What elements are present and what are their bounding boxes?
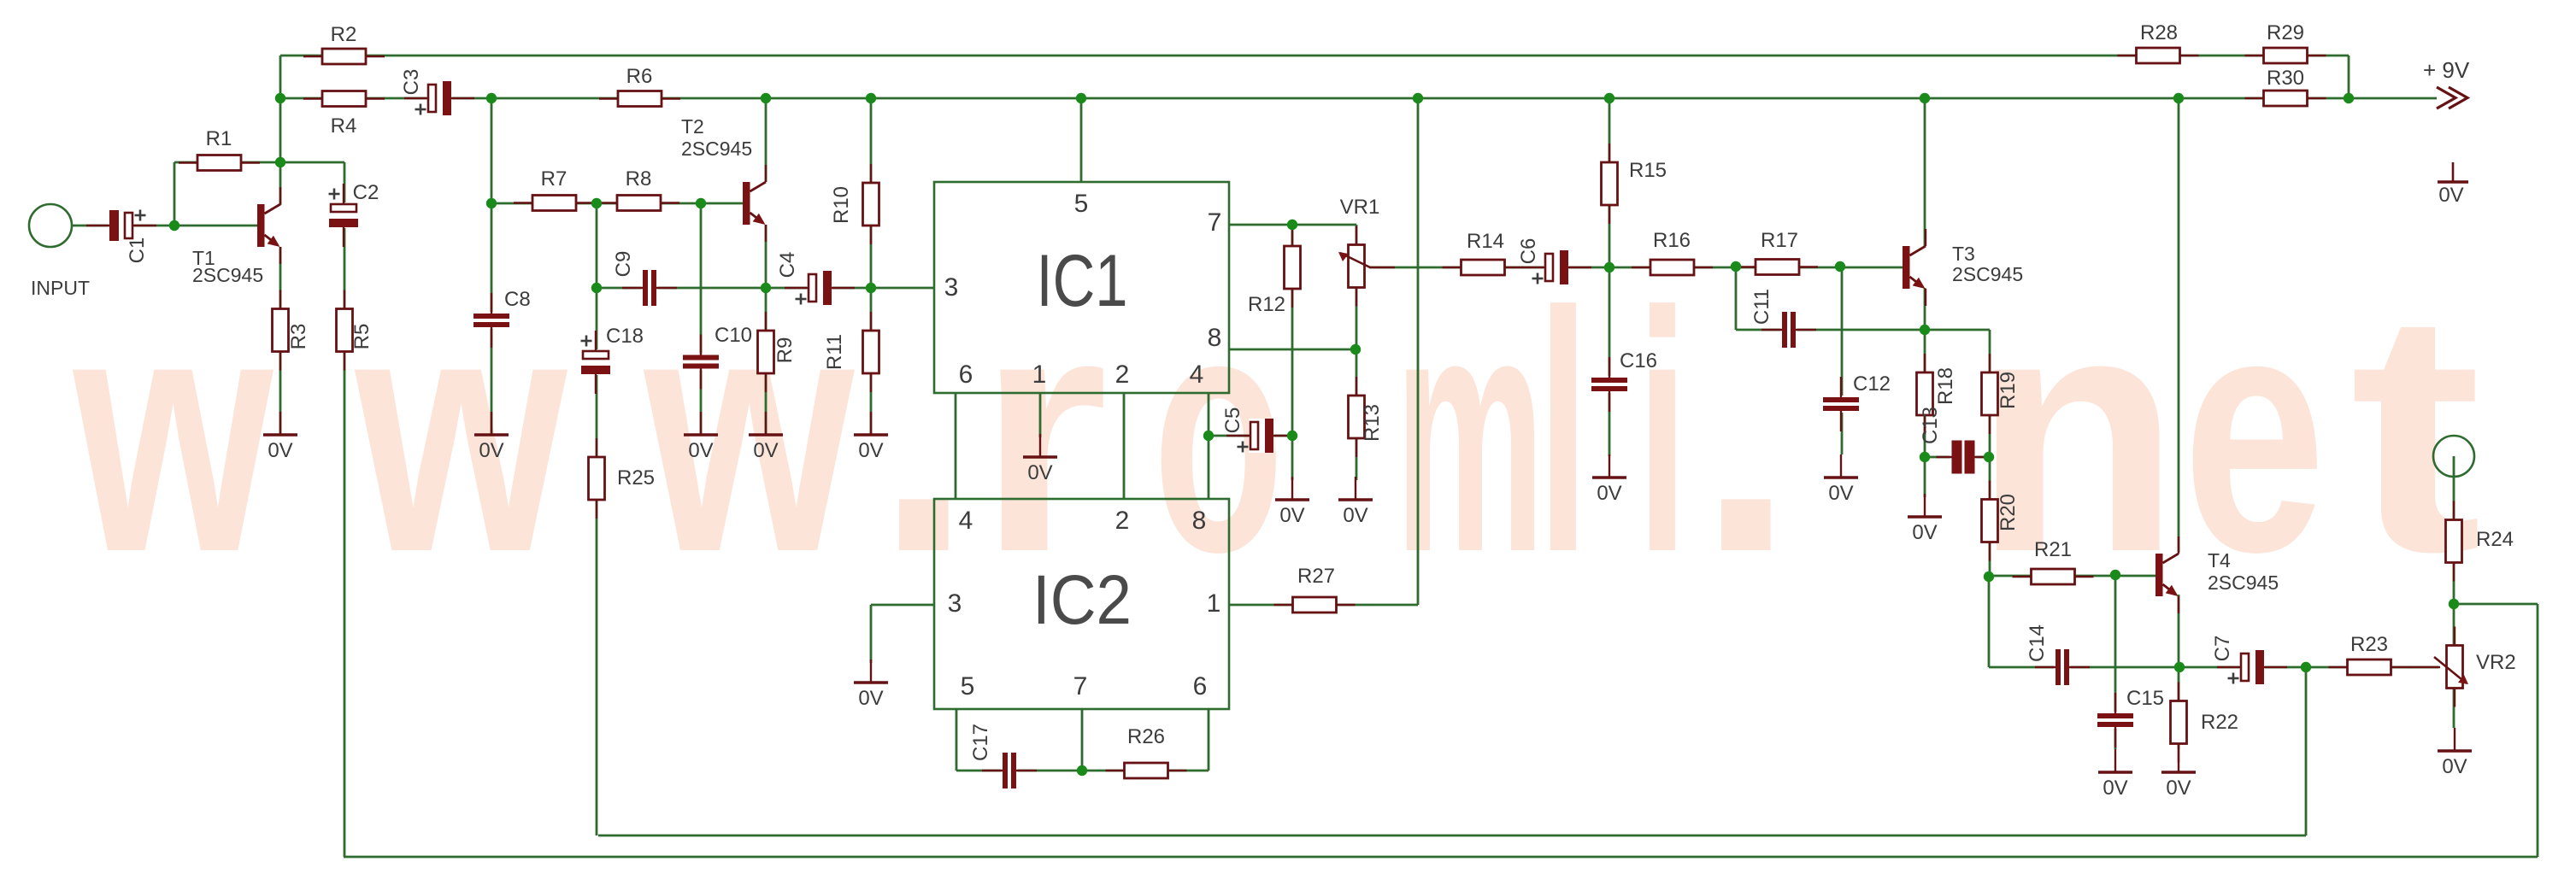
svg-text:0V: 0V xyxy=(1597,482,1621,505)
svg-text:C6: C6 xyxy=(1517,238,1540,265)
svg-text:7: 7 xyxy=(1073,672,1088,700)
svg-text:3: 3 xyxy=(948,589,962,618)
svg-text:R28: R28 xyxy=(2140,21,2178,44)
svg-text:3: 3 xyxy=(944,273,959,302)
svg-text:l: l xyxy=(1538,242,1590,624)
svg-text:R7: R7 xyxy=(541,167,568,191)
svg-text:T2: T2 xyxy=(681,115,704,138)
svg-text:R29: R29 xyxy=(2267,21,2304,44)
svg-text:C2: C2 xyxy=(353,181,379,204)
svg-text:R2: R2 xyxy=(331,23,357,46)
svg-text:R6: R6 xyxy=(626,65,653,88)
svg-text:R9: R9 xyxy=(773,337,797,364)
svg-text:C1: C1 xyxy=(126,237,149,264)
svg-text:R22: R22 xyxy=(2201,711,2238,734)
svg-text:R17: R17 xyxy=(1761,229,1798,252)
svg-text:C18: C18 xyxy=(606,325,644,348)
svg-text:C13: C13 xyxy=(1919,407,1942,444)
svg-text:R5: R5 xyxy=(350,324,373,350)
svg-text:2: 2 xyxy=(1115,361,1130,389)
svg-text:IC1: IC1 xyxy=(1037,240,1128,322)
svg-text:C12: C12 xyxy=(1853,372,1891,396)
svg-text:w: w xyxy=(351,241,568,623)
svg-text:R11: R11 xyxy=(823,334,846,370)
svg-text:R15: R15 xyxy=(1629,159,1667,182)
svg-text:R24: R24 xyxy=(2476,528,2514,551)
svg-text:R21: R21 xyxy=(2034,538,2072,561)
svg-text:5: 5 xyxy=(961,672,975,700)
svg-text:0V: 0V xyxy=(1027,461,1052,484)
svg-text:2SC945: 2SC945 xyxy=(2208,572,2279,594)
svg-text:w: w xyxy=(69,241,273,623)
svg-text:t: t xyxy=(2350,241,2482,623)
svg-text:0V: 0V xyxy=(1912,521,1937,544)
svg-text:i: i xyxy=(1637,242,1689,624)
svg-text:R8: R8 xyxy=(626,167,652,191)
svg-text:2SC945: 2SC945 xyxy=(681,138,752,160)
svg-text:INPUT: INPUT xyxy=(31,277,90,299)
svg-text:4: 4 xyxy=(1190,361,1204,389)
svg-text:6: 6 xyxy=(1193,672,1208,700)
svg-text:R18: R18 xyxy=(1934,367,1957,405)
svg-text:2: 2 xyxy=(1115,507,1130,535)
svg-text:0V: 0V xyxy=(2103,777,2127,800)
svg-text:C16: C16 xyxy=(1620,349,1657,372)
svg-text:R16: R16 xyxy=(1653,229,1691,252)
svg-text:0V: 0V xyxy=(688,439,713,462)
svg-text:R25: R25 xyxy=(617,466,655,489)
svg-text:C14: C14 xyxy=(2026,624,2049,662)
svg-text:0V: 0V xyxy=(2442,755,2467,778)
svg-text:C11: C11 xyxy=(1750,289,1773,325)
svg-text:R13: R13 xyxy=(1361,404,1384,442)
svg-text:R20: R20 xyxy=(1997,494,2020,531)
svg-text:R12: R12 xyxy=(1248,293,1285,316)
svg-text:C5: C5 xyxy=(1221,407,1244,434)
svg-text:R23: R23 xyxy=(2350,633,2388,656)
svg-text:0V: 0V xyxy=(479,439,503,462)
svg-text:2SC945: 2SC945 xyxy=(192,264,263,286)
svg-text:0V: 0V xyxy=(1828,482,1853,505)
svg-text:T4: T4 xyxy=(2208,549,2231,572)
svg-text:0V: 0V xyxy=(753,439,778,462)
svg-text:R14: R14 xyxy=(1467,230,1504,253)
svg-text:7: 7 xyxy=(1208,208,1222,237)
svg-text:VR1: VR1 xyxy=(1340,196,1380,219)
svg-text:C15: C15 xyxy=(2126,687,2164,710)
svg-text:.: . xyxy=(1698,241,1795,623)
svg-text:0V: 0V xyxy=(858,439,883,462)
svg-text:VR2: VR2 xyxy=(2476,651,2516,674)
svg-text:0V: 0V xyxy=(858,687,883,710)
svg-text:+ 9V: + 9V xyxy=(2423,57,2470,83)
svg-text:C3: C3 xyxy=(400,69,423,96)
svg-text:R4: R4 xyxy=(331,114,357,138)
svg-text:0V: 0V xyxy=(1279,504,1304,527)
svg-text:C9: C9 xyxy=(612,251,635,278)
svg-text:n: n xyxy=(1973,241,2180,623)
svg-text:C17: C17 xyxy=(969,724,992,761)
svg-text:5: 5 xyxy=(1074,190,1089,218)
svg-text:4: 4 xyxy=(959,507,973,535)
svg-text:IC2: IC2 xyxy=(1032,561,1132,639)
svg-text:R19: R19 xyxy=(1997,372,2020,409)
svg-text:0V: 0V xyxy=(2438,184,2463,207)
svg-text:R30: R30 xyxy=(2267,67,2304,90)
svg-text:0V: 0V xyxy=(2166,777,2191,800)
svg-text:1: 1 xyxy=(1032,361,1047,389)
svg-text:R1: R1 xyxy=(206,127,232,150)
svg-text:R26: R26 xyxy=(1127,725,1165,748)
svg-text:C7: C7 xyxy=(2211,636,2234,662)
svg-text:6: 6 xyxy=(959,361,973,389)
svg-text:1: 1 xyxy=(1207,589,1221,618)
svg-text:2SC945: 2SC945 xyxy=(1952,263,2023,285)
svg-text:8: 8 xyxy=(1192,507,1207,535)
svg-text:C8: C8 xyxy=(504,288,531,311)
svg-text:C10: C10 xyxy=(715,324,752,347)
svg-text:R27: R27 xyxy=(1297,565,1335,588)
svg-text:8: 8 xyxy=(1208,324,1222,352)
svg-text:C4: C4 xyxy=(776,252,799,278)
svg-text:0V: 0V xyxy=(1343,504,1367,527)
svg-text:0V: 0V xyxy=(268,439,292,462)
svg-text:e: e xyxy=(2183,241,2326,623)
svg-text:R3: R3 xyxy=(287,324,310,350)
svg-text:R10: R10 xyxy=(830,186,853,224)
svg-text:T3: T3 xyxy=(1952,243,1975,265)
